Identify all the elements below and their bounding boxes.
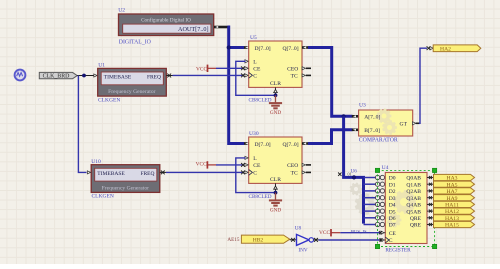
- pin C of U4: [380, 239, 386, 241]
- svg-text:AOUT[7..0]: AOUT[7..0]: [178, 26, 209, 33]
- wire GT to port HA2: [419, 48, 427, 123]
- pin-end cross at HA2: [427, 46, 431, 50]
- svg-text:QRE: QRE: [410, 223, 422, 229]
- pin TC of U30: [306, 171, 311, 173]
- svg-text:D[7..0]: D[7..0]: [255, 142, 271, 148]
- port HA7: [434, 188, 475, 194]
- bus pin D[7..0] of U30: [244, 142, 249, 145]
- pin FREQ of U10: [160, 171, 166, 173]
- junction on bus at D0 row: [352, 175, 356, 179]
- bus pin Q[7..0] of U30: [302, 142, 309, 145]
- junction on AOUT bus at U5 D row: [227, 45, 231, 49]
- bus pin A[7..0] of U3: [352, 115, 359, 118]
- gear watermark in U4 (small): [387, 213, 402, 228]
- pin-end cross at U30 CE: [241, 163, 245, 167]
- junction at U30 CLR/GND: [274, 191, 278, 195]
- bus stub to U5 D[7..0]: [229, 46, 245, 49]
- pin TC of U5: [306, 74, 311, 76]
- port HB2: [241, 235, 289, 243]
- svg-text:C: C: [389, 238, 393, 244]
- svg-text:C: C: [253, 170, 257, 176]
- component U30 CB8CLED counter: [249, 131, 302, 183]
- svg-text:L: L: [253, 156, 257, 162]
- pin-end cross at U1 FREQ: [167, 74, 171, 78]
- svg-text:TIMEBASE: TIMEBASE: [104, 74, 132, 80]
- svg-text:HB2: HB2: [253, 237, 264, 243]
- pin CLR of U30 with open arrow: [275, 183, 277, 192]
- svg-text:U5: U5: [250, 35, 257, 41]
- svg-text:01: 01: [348, 172, 352, 177]
- port HA9: [434, 195, 475, 201]
- port HA13: [434, 215, 475, 221]
- wire CLK_BRD to U1 TIMEBASE: [77, 75, 94, 77]
- selection handle: [432, 244, 436, 248]
- pin-end cross at U4 C: [379, 238, 382, 241]
- pin-end cross at U5 CE: [241, 66, 245, 70]
- pin CEO of U5: [306, 67, 311, 69]
- gear watermark left of U4 (small): [350, 183, 363, 196]
- svg-text:Q5AB: Q5AB: [406, 209, 421, 215]
- green selection rectangle around U4: [378, 170, 435, 246]
- svg-text:A[7..0]: A[7..0]: [364, 115, 380, 121]
- pin CE of U30: [245, 163, 248, 166]
- svg-text:U2: U2: [118, 8, 125, 14]
- svg-text:CEO: CEO: [287, 163, 298, 169]
- gear watermark in U3 (lower): [382, 120, 397, 135]
- svg-text:BUS_JS: BUS_JS: [351, 229, 367, 234]
- svg-text:Q0AB: Q0AB: [406, 176, 421, 182]
- wire VCC to U30 CE: [216, 164, 244, 166]
- selection handle: [375, 244, 379, 248]
- svg-text:FREQ: FREQ: [147, 74, 161, 80]
- svg-text:D0: D0: [389, 176, 396, 182]
- pin L of U5: [245, 60, 248, 63]
- svg-text:Configurable Digital IO: Configurable Digital IO: [141, 16, 191, 23]
- pin FREQ of U1: [166, 75, 172, 77]
- bus pin AOUT[7..0] of U2: [214, 26, 229, 29]
- pin-end cross at U30 C: [241, 171, 245, 175]
- svg-text:HA15: HA15: [445, 223, 459, 229]
- bus tap / jumper to D2: [364, 190, 376, 192]
- svg-text:TC: TC: [291, 170, 298, 176]
- component U1 Frequency Generator (CLKGEN): [98, 62, 167, 103]
- svg-text:U8: U8: [295, 225, 302, 231]
- svg-text:TIMEBASE: TIMEBASE: [97, 171, 125, 177]
- svg-text:CE: CE: [389, 231, 397, 237]
- blue circular probe icon left of CLK_BRD: [15, 70, 26, 81]
- bus wire AOUT[7..0]: U2 to D[7..0] of U5 and U30: [227, 27, 244, 144]
- pin Q6 of U4: [427, 217, 434, 219]
- pin CEO of U30: [306, 164, 311, 166]
- svg-text:INV: INV: [298, 247, 307, 253]
- pin C of U5: [245, 74, 248, 77]
- pin TIMEBASE of U1: [94, 74, 97, 77]
- svg-text:AE15: AE15: [227, 237, 240, 243]
- bus tap / jumper to D5: [364, 210, 376, 212]
- port HA12: [434, 208, 475, 214]
- svg-text:CB8CLED: CB8CLED: [249, 194, 272, 200]
- svg-text:U30: U30: [249, 131, 259, 137]
- power ground GND below U5: [269, 95, 282, 108]
- wire U1 FREQ to U5 C: [173, 74, 245, 76]
- svg-text:C: C: [253, 73, 257, 79]
- svg-text:Frequency Generator: Frequency Generator: [108, 89, 156, 95]
- pin-end cross at U5 C: [241, 74, 245, 78]
- svg-text:B[7..0]: B[7..0]: [364, 128, 380, 134]
- bus tap / jumper to D1: [364, 183, 376, 185]
- pin Q3 of U4: [427, 197, 434, 199]
- junction at CLK_BRD net: [82, 74, 86, 78]
- svg-text:FREQ: FREQ: [140, 171, 154, 177]
- wire VCC to U4 CE: [340, 232, 379, 234]
- svg-text:CLR: CLR: [270, 81, 281, 87]
- power ground GND below U30: [269, 193, 282, 206]
- wire U30 L to GND: [236, 158, 276, 193]
- wire CLK_BRD net down to U10 TIMEBASE: [78, 76, 86, 173]
- svg-text:Q1AB: Q1AB: [406, 182, 421, 188]
- svg-text:VCC: VCC: [196, 66, 207, 72]
- pin-end cross at U8 input: [291, 238, 295, 242]
- svg-text:D7: D7: [389, 223, 396, 229]
- pin Q7 of U4: [427, 224, 434, 226]
- svg-text:D6: D6: [389, 216, 396, 222]
- pin Q5 of U4: [427, 210, 434, 212]
- gear watermark in U4 (large): [392, 190, 416, 214]
- pin CLR of U5 with open arrow: [275, 87, 277, 95]
- svg-text:U10: U10: [91, 159, 101, 165]
- pin L of U30: [245, 156, 248, 159]
- bus tap / jumper to D6: [364, 217, 376, 219]
- bus wire U5 Q[7..0] to U3 A[7..0] and register D inputs: [308, 48, 353, 117]
- gear watermark in U3 (upper): [377, 109, 392, 124]
- junction at U5 CLR/GND: [274, 93, 278, 97]
- svg-text:CEO: CEO: [287, 66, 298, 72]
- pin C of U30: [245, 171, 248, 174]
- svg-text:TC: TC: [291, 73, 298, 79]
- pin GT of U3: [416, 122, 420, 124]
- svg-text:D5: D5: [389, 209, 396, 215]
- svg-text:CE: CE: [253, 66, 261, 72]
- svg-text:Q2AB: Q2AB: [406, 189, 421, 195]
- selection handle: [432, 168, 436, 172]
- selection handle: [375, 168, 379, 172]
- svg-text:U3: U3: [359, 103, 366, 109]
- svg-text:REGISTER: REGISTER: [385, 248, 411, 254]
- svg-text:CLKGEN: CLKGEN: [92, 194, 114, 200]
- pin CE of U5: [245, 67, 248, 70]
- svg-text:D1: D1: [389, 182, 396, 188]
- junction on Q bus at comparator A row: [342, 114, 346, 118]
- pin Q0 of U4: [427, 177, 434, 179]
- svg-text:Q[7..0]: Q[7..0]: [282, 142, 298, 148]
- svg-text:D3: D3: [389, 196, 396, 202]
- svg-text:CLK_BRD: CLK_BRD: [43, 74, 71, 80]
- bus pin D[7..0] of U5: [244, 46, 249, 49]
- svg-text:CE: CE: [253, 163, 261, 169]
- svg-text:U1: U1: [98, 62, 105, 68]
- svg-text:CLR: CLR: [270, 177, 281, 183]
- wire U8 output to U4 C: [314, 239, 319, 241]
- pin Q1 of U4: [427, 183, 434, 185]
- port HA3: [434, 174, 475, 180]
- svg-text:QRE: QRE: [410, 216, 422, 222]
- svg-text:Q[7..0]: Q[7..0]: [282, 46, 298, 52]
- bus branch down to U6 bus rippers and U4 D pins: [344, 116, 364, 223]
- bus tap / jumper to D7: [364, 224, 376, 226]
- svg-text:GND: GND: [270, 207, 281, 213]
- pin TIMEBASE of U10: [87, 171, 90, 174]
- component U2 Configurable Digital IO (DIGITAL_IO): [118, 8, 214, 46]
- port CLK_BRD: [39, 72, 77, 78]
- wire U5 L to GND: [236, 61, 276, 95]
- port HA11: [434, 201, 475, 207]
- bus pin Q[7..0] of U5: [302, 46, 309, 49]
- svg-text:CB8CLED: CB8CLED: [249, 98, 272, 104]
- bus tap / jumper to D4: [364, 203, 376, 205]
- pin-end cross at U10 FREQ: [161, 171, 165, 175]
- port HA5: [434, 181, 475, 187]
- svg-text:Frequency Generator: Frequency Generator: [102, 186, 150, 192]
- svg-text:D4: D4: [389, 203, 396, 209]
- component U5 CB8CLED counter: [249, 35, 302, 87]
- component U10 Frequency Generator (CLKGEN): [91, 159, 160, 200]
- svg-text:L: L: [253, 59, 257, 65]
- svg-text:VCC: VCC: [319, 230, 330, 236]
- svg-text:Q3AB: Q3AB: [406, 196, 421, 202]
- pin-end cross at U4 CE: [379, 231, 382, 234]
- pin Q2 of U4: [427, 190, 434, 192]
- svg-text:D[7..0]: D[7..0]: [255, 46, 271, 52]
- bus pin B[7..0] of U3: [352, 129, 359, 132]
- svg-text:DIGITAL_IO: DIGITAL_IO: [119, 39, 151, 45]
- component U3 COMPARATOR: [359, 103, 413, 136]
- svg-text:HA2: HA2: [440, 46, 451, 52]
- component U4 REGISTER: [382, 165, 427, 244]
- pin-end cross at U8 output: [314, 238, 318, 242]
- port HA15: [434, 221, 475, 227]
- bus tap / jumper to D0: [364, 177, 376, 179]
- svg-text:D2: D2: [389, 189, 396, 195]
- pin CE of U4: [380, 232, 386, 234]
- wire HB2 to U8 input: [290, 239, 297, 241]
- port HA2: [433, 45, 481, 52]
- svg-text:GND: GND: [270, 110, 281, 116]
- inverter U8 INV: [295, 225, 314, 253]
- pin Q4 of U4: [427, 203, 434, 205]
- wire U10 FREQ to U30 C: [166, 171, 244, 173]
- bus wire U30 Q[7..0] to U3 B[7..0]: [308, 130, 353, 144]
- wire VCC to U5 CE: [216, 67, 244, 69]
- svg-text:CLKGEN: CLKGEN: [98, 97, 120, 103]
- svg-text:Q4AB: Q4AB: [406, 203, 421, 209]
- cross marker left of U6: [338, 173, 341, 176]
- gear watermark left of U4 (large): [355, 193, 377, 215]
- svg-text:COMPARATOR: COMPARATOR: [359, 137, 398, 143]
- svg-text:VCC: VCC: [196, 162, 207, 168]
- bus tap / jumper to D3: [364, 197, 376, 199]
- svg-text:GT: GT: [400, 122, 408, 128]
